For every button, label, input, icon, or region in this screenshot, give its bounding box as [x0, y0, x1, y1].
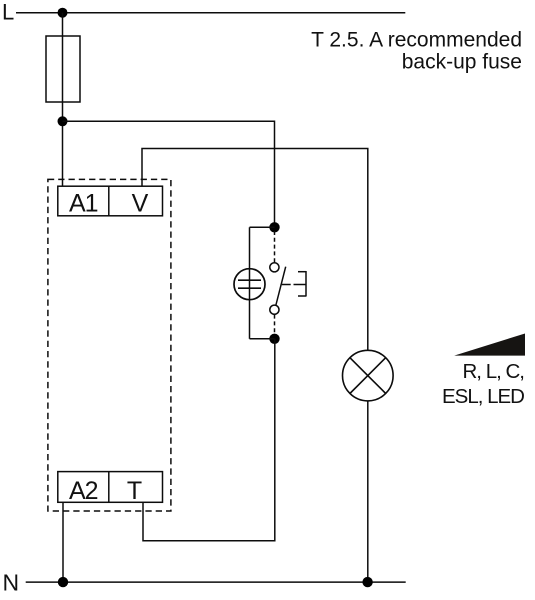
pushbutton blade — [276, 267, 286, 306]
wire A2 terminal down to N — [62, 502, 64, 582]
terminal block A1 / V — [58, 186, 163, 216]
wire N line — [26, 581, 406, 583]
device box (dashed outline) — [48, 179, 171, 511]
terminal block A2 / T — [58, 472, 163, 503]
dimmer triangle symbol — [454, 334, 525, 356]
svg-text:A1: A1 — [69, 190, 98, 218]
glow lamp (button illumination) — [234, 269, 265, 300]
pushbutton dashed link to bottom node — [274, 315, 276, 336]
svg-text:A2: A2 — [69, 477, 98, 505]
svg-text:L: L — [2, 0, 14, 25]
wire branch from fuse to switch top — [63, 121, 275, 227]
terminal divider bottom — [108, 472, 110, 503]
fuse F1 (back-up fuse) — [46, 36, 80, 102]
node switch-chain top junction — [269, 222, 279, 232]
wire glow-lamp branch vertical — [249, 227, 251, 338]
svg-text:back-up fuse: back-up fuse — [402, 51, 522, 74]
pushbutton lower contact — [270, 305, 279, 314]
wire L line — [16, 12, 405, 14]
node junction on L line — [58, 8, 68, 18]
wire fuse vertical (L to A1 terminal) — [62, 13, 64, 187]
node junction below fuse — [58, 116, 68, 126]
pushbutton upper contact — [270, 263, 279, 272]
node switch-chain bottom junction — [269, 334, 279, 344]
actuator link dash to blade — [282, 284, 291, 286]
pushbutton S1: dashed link from top node — [274, 231, 276, 263]
lamp load E1 — [343, 350, 394, 401]
node junction N / A2 — [58, 577, 68, 587]
svg-text:N: N — [3, 570, 20, 596]
node junction N / lamp — [362, 577, 372, 587]
svg-text:T 2.5. A recommended: T 2.5. A recommended — [311, 29, 522, 52]
wire switch bottom to T terminal — [143, 339, 275, 541]
wire V terminal up and over to lamp — [142, 149, 368, 351]
wire stub to glow-lamp branch (bottom) — [250, 338, 275, 340]
svg-text:ESL, LED: ESL, LED — [442, 385, 524, 408]
svg-text:V: V — [132, 190, 149, 218]
wire lamp bottom to N — [367, 401, 369, 582]
svg-text:T: T — [127, 477, 142, 505]
wire stub to glow-lamp branch (top) — [250, 226, 275, 228]
pushbutton actuator (manual operator) — [305, 271, 307, 297]
svg-text:R, L, C,: R, L, C, — [463, 360, 525, 383]
terminal divider top — [108, 186, 110, 216]
